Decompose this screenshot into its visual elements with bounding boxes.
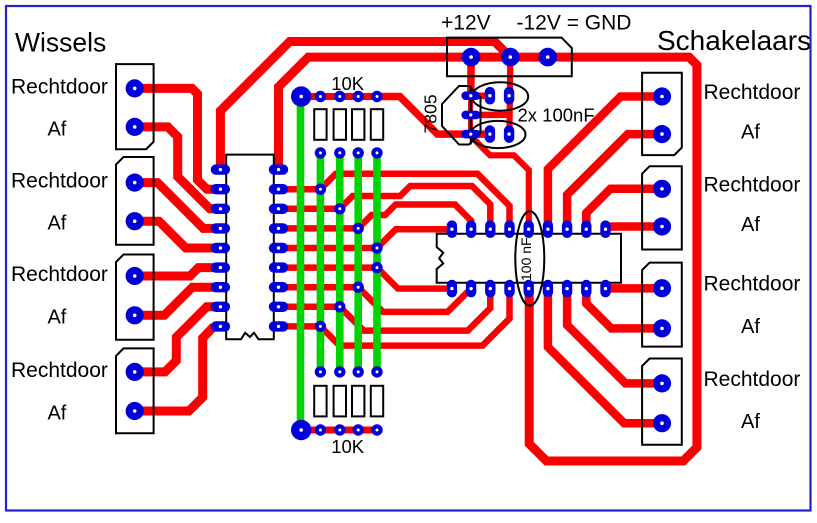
pad IC2 bottom 8	[581, 280, 591, 298]
svg-text:Rechtdoor: Rechtdoor	[704, 81, 801, 104]
connector S2 outline	[642, 166, 682, 249]
pad IC2 top 3	[485, 220, 495, 238]
pad IC1 pin16	[269, 204, 288, 214]
wire GND from power pad2 through caps	[506, 57, 513, 138]
wire jumper col2	[317, 153, 325, 372]
wire jumper big (10K1 pin1 to 10K2 pin1)	[297, 97, 305, 431]
node jumper via 2	[334, 203, 345, 214]
pad 10K1 bottom 4	[371, 147, 382, 158]
pad S2b	[653, 217, 671, 235]
pad IC2 top 7	[562, 220, 572, 238]
pad J1 pin3	[538, 48, 557, 67]
wire 10K common rail to 7805 pin3 and cap C2 left pad	[381, 97, 490, 135]
pad J1 pin1	[462, 48, 481, 67]
pad IC1 pin13	[269, 262, 288, 272]
resistor 10K2 R1 body	[314, 386, 326, 417]
resistor 10K2 R2 body	[334, 386, 346, 417]
pad 10K2 bottom 1	[315, 424, 326, 435]
connector W3 outline	[116, 255, 154, 340]
wire C2b to IC1 pin5	[135, 221, 214, 248]
node jumper via 6	[353, 282, 364, 293]
resistor 10K2 R4 body	[371, 386, 383, 417]
wire jumper col4	[354, 153, 362, 372]
pad W2b	[126, 212, 144, 230]
wire IC2 pin11 to S4a	[567, 289, 662, 384]
wire S1b to IC2 pin7	[567, 134, 662, 229]
connector W4 outline	[116, 348, 154, 433]
resistor 10K2 R3 body	[352, 386, 364, 417]
pad 10K1 top 2	[334, 91, 345, 102]
svg-text:Wissels: Wissels	[15, 27, 106, 57]
svg-text:10K: 10K	[331, 73, 365, 94]
svg-text:-12V = GND: -12V = GND	[517, 12, 632, 35]
pad IC2 bottom 2	[466, 280, 476, 298]
pad IC2 bottom 6	[543, 280, 553, 298]
pad C2 left	[485, 125, 495, 143]
wire 7805 pin2 to GND line	[471, 112, 510, 119]
pad 10K1 bottom 1	[315, 147, 326, 158]
pad IC1 pin10	[269, 321, 288, 331]
svg-text:Af: Af	[741, 214, 760, 236]
pad IC2 bottom 7	[562, 280, 572, 298]
pad IC2 top 4	[504, 220, 514, 238]
wire C4b to IC1 pin9	[135, 326, 214, 411]
node jumper via 7	[334, 301, 345, 312]
pad S4b	[653, 414, 671, 432]
pad IC2 top 9	[600, 220, 610, 238]
resistor 10K1 R4 body	[371, 109, 383, 140]
svg-text:10K: 10K	[331, 436, 365, 457]
wire IC1 pin10 via jumper pad to IC2 pin13	[279, 289, 510, 346]
wire power pad1 to 7805 pin1	[467, 57, 475, 96]
pad IC2 top 2	[466, 220, 476, 238]
wire IC1 pin15 via jumper pad to IC2 pin2	[279, 205, 472, 230]
wire C2a to IC1 pin4	[135, 183, 214, 229]
capacitor C3 outline (100 nF)	[515, 211, 544, 305]
pad W2a	[126, 174, 144, 192]
pad IC1 pin1	[211, 164, 230, 174]
svg-text:Rechtdoor: Rechtdoor	[11, 170, 108, 193]
svg-text:Rechtdoor: Rechtdoor	[704, 173, 801, 196]
pad 10K2 top 2	[334, 366, 345, 377]
wire C4a to IC1 pin8	[135, 307, 214, 372]
svg-text:Af: Af	[47, 402, 66, 424]
svg-text:Af: Af	[47, 307, 66, 329]
pad 10K1 bottom 2	[334, 147, 345, 158]
wire C3a to IC1 pin6	[135, 268, 214, 276]
pad 10K1 top 4	[371, 91, 382, 102]
svg-text:Rechtdoor: Rechtdoor	[11, 76, 108, 99]
wire IC1 pin17 via jumper pad to IC2 pin4	[279, 174, 510, 229]
wire IC1 pin1 to power pad2 (+12V upper rail)	[220, 42, 510, 170]
wire C1a to IC1 pin2	[135, 88, 214, 189]
node jumper via 5	[371, 262, 382, 273]
wire jumper col5	[373, 153, 381, 372]
connector S1 outline	[642, 73, 682, 155]
wire IC1 pin14 via jumper pad to IC2 pin1	[279, 229, 452, 248]
pad IC1 pin5	[211, 243, 230, 253]
wire IC1 pin12 via jumper pad to IC2 pin15	[279, 287, 472, 312]
pad IC2 top 5	[524, 220, 534, 238]
pad C1 right	[504, 87, 514, 105]
svg-text:Rechtdoor: Rechtdoor	[704, 368, 801, 391]
svg-text:Rechtdoor: Rechtdoor	[11, 263, 108, 286]
pad 10K2 common	[291, 420, 311, 440]
wire 10K1 top rail	[301, 93, 385, 100]
pad 10K1 common	[291, 86, 311, 106]
pad 7805 pin3	[461, 130, 480, 139]
connector W1 outline	[116, 64, 154, 149]
connector W2 outline	[116, 157, 154, 245]
svg-text:Af: Af	[741, 122, 760, 144]
node jumper via 8	[315, 321, 326, 332]
wire IC2 pin9 to S3a	[606, 284, 663, 293]
pad IC1 pin11	[269, 302, 288, 312]
pad IC2 top 1	[447, 220, 457, 238]
pad IC2 bottom 9	[600, 280, 610, 298]
pad IC2 bottom 5	[524, 280, 534, 298]
pad S1a	[653, 87, 671, 105]
svg-text:100 nF: 100 nF	[518, 237, 534, 281]
connector S4 outline	[642, 359, 682, 445]
IC2 DIP outline	[437, 234, 621, 283]
capacitor C2 outline (100nF)	[470, 121, 525, 148]
resistor 10K1 R3 body	[352, 109, 364, 140]
svg-text:Af: Af	[47, 118, 66, 140]
regulator U3 7805 outline	[442, 86, 481, 145]
pad IC1 pin6	[211, 262, 230, 272]
pad IC1 pin8	[211, 302, 230, 312]
pad 7805 pin2	[461, 111, 480, 120]
svg-text:Af: Af	[741, 411, 760, 433]
pad IC2 bottom 1	[447, 280, 457, 298]
node jumper via 3	[353, 223, 364, 234]
capacitor C1 outline (100nF)	[472, 82, 528, 110]
svg-text:+12V: +12V	[441, 12, 491, 35]
svg-text:2x 100nF: 2x 100nF	[518, 105, 595, 126]
wire IC2 pin10 to S3b	[586, 289, 662, 329]
svg-text:Rechtdoor: Rechtdoor	[704, 273, 801, 296]
wire IC1 pin18 / power rail / right-edge loop to C100n bottom pad	[279, 57, 697, 461]
power connector J1 outline	[447, 38, 572, 77]
pad IC1 pin15	[269, 223, 288, 233]
wire IC1 pin16 via jumper pad to IC2 pin3	[279, 186, 491, 229]
wire IC1 pin13 via jumper pad to IC2 pin16	[279, 268, 452, 289]
pad 10K2 bottom 2	[334, 424, 345, 435]
pad IC2 bottom 3	[485, 280, 495, 298]
wire 7805 pin3 to IC2 pin5 cap	[471, 136, 529, 229]
wire S2a to IC2 pin8	[586, 189, 662, 229]
pad 10K1 top 1	[315, 91, 326, 102]
pad 7805 pin1	[461, 91, 480, 100]
wire IC1 pin11 via jumper pad to IC2 pin14	[279, 289, 491, 331]
pad 10K2 bottom 3	[353, 424, 364, 435]
node jumper via 1	[315, 184, 326, 195]
pad IC1 pin9	[211, 321, 230, 331]
pad J1 pin2	[501, 48, 520, 67]
pad W4b	[126, 402, 144, 420]
wire 10K2 bottom rail	[301, 427, 381, 434]
pad S4a	[653, 374, 671, 392]
wire C3b to IC1 pin7	[135, 287, 214, 315]
pad 10K2 bottom 4	[371, 424, 382, 435]
wire IC2 pin12 to S4b	[548, 289, 662, 424]
pad W1b	[126, 118, 144, 136]
pad IC2 top 6	[543, 220, 553, 238]
wire 7805 pin column	[468, 96, 473, 134]
resistor 10K1 R1 body	[314, 109, 326, 140]
pad IC1 pin17	[269, 184, 288, 194]
wire S1a to IC2 pin6	[548, 97, 662, 230]
pad 10K2 top 1	[315, 366, 326, 377]
wire jumper col3	[336, 153, 344, 372]
svg-text:7805: 7805	[421, 94, 441, 133]
pad IC1 pin14	[269, 243, 288, 253]
wire 7805 pin1 to cap C1 left pad	[471, 92, 490, 99]
wire C1b to IC1 pin3	[135, 127, 214, 209]
pad IC1 pin12	[269, 282, 288, 292]
wire S2b to IC2 pin9	[606, 227, 663, 229]
pad W3a	[126, 267, 144, 285]
svg-text:Rechtdoor: Rechtdoor	[11, 359, 108, 382]
connector S3 outline	[642, 263, 682, 347]
pad IC1 pin4	[211, 223, 230, 233]
pad S3a	[653, 279, 671, 297]
svg-text:Schakelaars: Schakelaars	[657, 25, 811, 56]
pad S2a	[653, 180, 671, 198]
node jumper via 4	[371, 242, 382, 253]
pad IC1 pin7	[211, 282, 230, 292]
pad 10K1 bottom 3	[353, 147, 364, 158]
pad S3b	[653, 319, 671, 337]
pad C1 left	[485, 87, 495, 105]
pad W1a	[126, 79, 144, 97]
pad IC1 pin3	[211, 204, 230, 214]
pad IC2 top 8	[581, 220, 591, 238]
pad IC1 pin2	[211, 184, 230, 194]
svg-text:Af: Af	[47, 213, 66, 235]
pad C2 right	[504, 125, 514, 143]
resistor 10K1 R2 body	[334, 109, 346, 140]
pad IC2 bottom 4	[504, 280, 514, 298]
pad S1b	[653, 125, 671, 143]
pad IC1 pin18	[269, 164, 288, 174]
IC1 DIP-18 outline	[226, 155, 274, 340]
pad W3b	[126, 306, 144, 324]
pad 10K2 top 4	[371, 366, 382, 377]
pad 10K2 top 3	[353, 366, 364, 377]
pad 10K1 top 3	[353, 91, 364, 102]
svg-text:Af: Af	[741, 316, 760, 338]
pad W4a	[126, 363, 144, 381]
